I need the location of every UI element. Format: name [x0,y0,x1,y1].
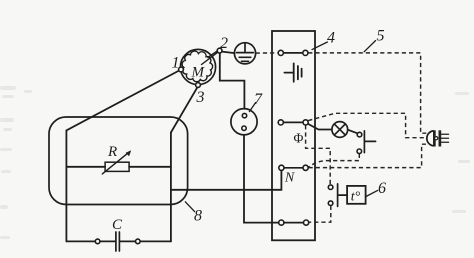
contact F left [278,120,283,125]
socket X1 (7) circle [231,109,257,135]
lamp X cross [334,124,345,135]
wire contact F to lamp [308,124,332,130]
thermostat t box [347,186,366,204]
motor winding cloud [182,51,212,82]
pointer to label 4 [312,42,327,50]
motor U1 circle [180,49,215,84]
plug prongs [441,134,448,142]
wire tank to contact N [171,171,282,190]
thermostat contact top [328,185,333,190]
pointer to label 7 [249,103,255,112]
dashed wire contact F to plug middle [308,113,426,137]
wire terminal2 to earth circle [222,52,235,54]
heater R wires [66,166,170,168]
svg-text:8: 8 [194,207,202,224]
contact 4 right [303,50,308,55]
contact N right [303,165,308,170]
tank 8 rounded body [49,117,188,205]
socket hole bottom [242,126,246,130]
wire lamp to button [348,130,358,134]
lamp HL circle [332,122,348,138]
capacitor C plates [116,232,120,251]
heater R arrow [102,152,129,174]
motor winding leads to terminal 2 [202,50,219,65]
wire socket 7 bottom to terminal block bottom pair [244,135,279,223]
dashed wire button to contact N [309,154,360,167]
svg-text:1: 1 [172,54,180,71]
contact pair N bar [284,167,303,169]
dashed wire contact N to plug bottom [309,144,427,167]
pointer to label 8 [185,202,194,212]
svg-text:t°: t° [351,190,361,205]
heater R box [105,162,129,171]
svg-text:7: 7 [254,91,263,108]
motor terminal 3 [196,83,201,88]
button SB actuator [364,131,375,153]
capacitor node left [95,239,100,244]
svg-text:R: R [107,144,117,160]
wire terminal1 to tank left [66,71,179,131]
svg-text:6: 6 [378,180,386,197]
earth electrode symbol circled [234,43,255,64]
svg-text:N: N [284,171,295,186]
svg-text:M: M [191,65,206,81]
contact bottom left [279,220,284,225]
pointer to label 6 [366,190,378,196]
plug X2 dot [435,137,438,140]
heater R arrowhead [126,150,132,156]
dashed wire thermostat bottom to block [309,206,331,222]
pointer to label 5 [364,41,375,52]
motor terminal 1 [179,67,184,72]
contact bottom right [304,220,309,225]
contact F right [303,120,308,125]
thermostat actuator [338,184,347,207]
socket hole top [242,113,246,117]
button contact top [357,132,362,137]
svg-text:5: 5 [377,27,385,44]
button contact bottom [357,149,362,154]
capacitor C wires [66,240,170,242]
plug X2 dome [427,131,433,146]
svg-text:4: 4 [327,29,335,46]
motor terminal 2 [217,48,222,53]
terminal block body [272,31,315,240]
contact 4 left [278,50,283,55]
svg-text:3: 3 [196,89,205,106]
wire terminal3 to tank right [171,87,197,132]
contact pair 4 bar [284,52,303,54]
dashed wire earth circle to contact 4 [256,52,278,54]
wire terminal2 down to socket 7 [220,53,245,109]
terminal and contact circles [95,48,362,244]
capacitor node right [136,239,141,244]
dashed wire contact F down to thermostat top [306,125,331,184]
plug X2 body bars [433,130,441,146]
contact pair F bar [284,121,303,123]
tank inner left wire [65,130,67,241]
tank inner right wire [170,133,172,242]
chassis ground symbol in block [284,63,301,81]
contact pair bottom bar [284,222,303,224]
thermostat contact bottom [328,201,333,206]
contact N left [279,165,284,170]
svg-text:2: 2 [220,35,228,52]
dashed cord wires [256,53,427,222]
svg-text:Φ: Φ [293,131,303,146]
svg-text:C: C [112,217,123,233]
dashed wire 5 contact4 to plug top [308,53,426,133]
